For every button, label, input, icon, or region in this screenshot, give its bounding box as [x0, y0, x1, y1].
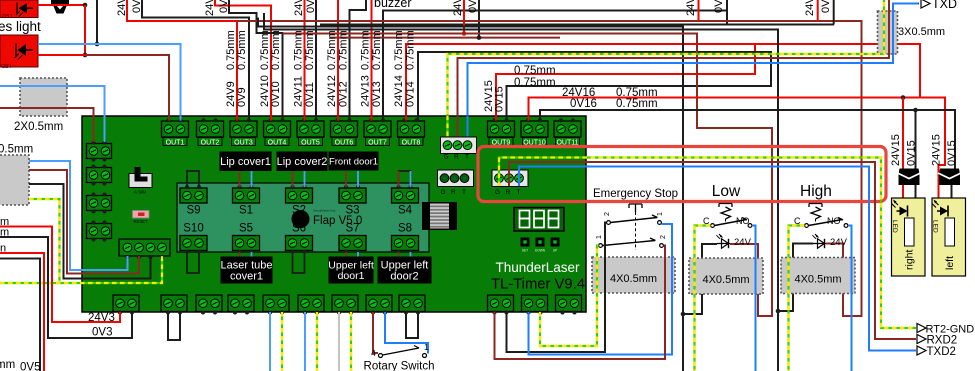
- logo dot: [292, 210, 310, 228]
- left header J3: [87, 196, 112, 211]
- wire blue ES right: [529, 224, 673, 355]
- svg-text:S5: S5: [239, 223, 253, 235]
- left header J1: [87, 144, 112, 159]
- wire dark-red through cable to J1: [0, 108, 94, 142]
- wire blue stub GRT1: [467, 116, 469, 140]
- switch Rotary: [379, 354, 383, 358]
- node junction: [83, 53, 88, 58]
- label box Laser tube cover1: [221, 257, 273, 284]
- wire yellow-green GRT3 to RT2-GND: [499, 158, 916, 329]
- svg-text:24V15: 24V15: [931, 134, 943, 166]
- wire B6 yellow-green down: [316, 312, 318, 371]
- wire 24V feed red with junction: [463, 0, 465, 34]
- wire yellow-green to J5: [0, 256, 162, 283]
- diode D-Low 24V: [717, 243, 730, 245]
- svg-text:0V5: 0V5: [20, 362, 40, 371]
- svg-text:OUT6: OUT6: [335, 139, 354, 146]
- wire 0V16 black to lamps: [540, 110, 955, 205]
- wire 0V14 black staircase to OUT9: [418, 52, 771, 121]
- wire B7 gray down: [338, 312, 340, 371]
- wire 0V9 black: [142, 0, 249, 121]
- wire dark-red GRT3 to RXD2: [509, 162, 916, 339]
- wire blue cable to J5: [29, 161, 128, 270]
- wire dark-red ES right: [495, 246, 666, 360]
- svg-text:OUT4: OUT4: [268, 139, 287, 146]
- wire 24V14 red staircase to OUT9: [406, 44, 755, 121]
- wire 0V3 black: [0, 237, 132, 338]
- svg-text:RESET: RESET: [134, 219, 148, 224]
- wire black ES left: [507, 223, 607, 353]
- svg-text:0V3: 0V3: [92, 327, 112, 339]
- LED indicator box1 (red, cut at top): [0, 0, 38, 18]
- wire S dark-red stub down: [239, 252, 241, 257]
- wire rotary dark-red: [373, 312, 378, 353]
- wire B6 blue down: [304, 312, 306, 371]
- switch SW2 Low: [719, 204, 732, 208]
- svg-text:0V: 0V: [713, 0, 725, 13]
- svg-text:T: T: [517, 189, 521, 196]
- svg-text:LED: LED: [891, 220, 898, 233]
- wire B5 blue down: [269, 312, 271, 371]
- wire blue GRT to TXD: [468, 4, 920, 139]
- svg-text:2: 2: [660, 235, 667, 239]
- svg-text:0V15: 0V15: [494, 86, 506, 112]
- wire dark-red bus to Low diode: [283, 34, 773, 317]
- cable 0.5mm: [0, 155, 29, 205]
- wire S8 top stubs: [398, 171, 400, 187]
- terminal S3: [339, 188, 366, 203]
- svg-text:4X0.5mm: 4X0.5mm: [702, 274, 749, 286]
- wire black bus to High column: [264, 13, 778, 371]
- svg-text:thenderlaser-ling: thenderlaser-ling: [313, 209, 336, 213]
- wire yellow-green GRT to top edge: [448, 0, 885, 138]
- svg-text:0.75mm: 0.75mm: [616, 98, 658, 110]
- svg-text:0.75mm: 0.75mm: [405, 30, 417, 70]
- svg-text:Rotary Switch: Rotary Switch: [364, 361, 435, 371]
- svg-text:High: High: [800, 183, 832, 200]
- terminal OUT1: [162, 121, 189, 137]
- svg-text:OUT5: OUT5: [301, 139, 320, 146]
- svg-text:T: T: [465, 154, 469, 161]
- wire black bracket High diode: [778, 244, 813, 312]
- label box Upper left door1: [329, 257, 374, 284]
- terminal OUT8: [398, 121, 425, 137]
- wire S4 loop: [399, 171, 411, 187]
- svg-text:0V16: 0V16: [570, 98, 597, 110]
- terminal bottom B4: [228, 295, 254, 312]
- svg-text:left: left: [944, 256, 956, 270]
- lamp left internals: [945, 218, 955, 246]
- buttons SET DOWN UP: [521, 238, 530, 247]
- svg-text:24V14: 24V14: [393, 75, 405, 107]
- svg-text:Emergency Stop: Emergency Stop: [593, 188, 678, 200]
- node junction: [901, 95, 906, 100]
- wire rotary blue: [385, 312, 428, 354]
- svg-text:SET: SET: [522, 249, 528, 253]
- svg-text:Front door1: Front door1: [329, 156, 378, 167]
- diode D-High 24V: [813, 243, 826, 245]
- wire dark-red bus to High lamp diode: [237, 21, 862, 316]
- connector J5 4-pin: [119, 239, 170, 256]
- LED indicator box2 (red): [0, 35, 38, 67]
- svg-text:0V10: 0V10: [270, 81, 282, 107]
- svg-text:Lip cover1: Lip cover1: [220, 156, 271, 168]
- terminal OUT5: [297, 121, 324, 137]
- terminal S6: [286, 236, 313, 251]
- left header J4: [87, 224, 112, 239]
- connector symbol left lamp: [939, 169, 960, 175]
- wire black branch lamp right: [915, 110, 917, 219]
- svg-text:24V: 24V: [734, 237, 752, 248]
- off-page arrow RXD2: [917, 335, 926, 344]
- svg-text:0V12: 0V12: [338, 81, 350, 107]
- wire black vertical from top: [96, 0, 98, 44]
- wire S9 loop: [187, 171, 199, 187]
- svg-text:LED: LED: [2, 12, 12, 18]
- svg-text:0V10: 0V10: [218, 0, 230, 13]
- switch SW3 High: [809, 204, 822, 208]
- wire 0V feed black with junction: [478, 0, 480, 38]
- svg-text:1: 1: [657, 212, 664, 216]
- svg-text:G: G: [444, 154, 449, 161]
- connector GRT3: [492, 170, 528, 187]
- svg-text:A SIM: A SIM: [134, 190, 146, 195]
- PCB board TL-Timer: [82, 116, 586, 312]
- wire yellow-green ES left: [540, 246, 599, 347]
- terminal bottom B1: [113, 295, 139, 312]
- node junction red: [462, 31, 467, 36]
- svg-text:0V15: 0V15: [906, 140, 918, 166]
- terminal bottom B5: [263, 295, 289, 312]
- wire B7 yellow-green down: [350, 312, 352, 371]
- svg-text:0V14: 0V14: [405, 81, 417, 107]
- wire red box2 to junction: [38, 54, 85, 56]
- terminal bottom B7: [332, 295, 358, 312]
- wire yellow-green cable elbow: [29, 199, 60, 283]
- terminal S10: [180, 236, 207, 251]
- terminal S2: [286, 188, 313, 203]
- svg-text:3X0.5mm: 3X0.5mm: [898, 26, 945, 38]
- node junction: [83, 3, 88, 8]
- terminal OUT4: [264, 121, 291, 137]
- label box Front door1: [329, 152, 379, 171]
- svg-text:G: G: [495, 189, 500, 196]
- svg-text:TXD2: TXD2: [927, 346, 956, 358]
- svg-text:S3: S3: [345, 205, 359, 217]
- svg-text:2X0.5mm: 2X0.5mm: [14, 121, 63, 133]
- connector ribbon: [422, 202, 457, 230]
- contact blade High: [809, 218, 844, 226]
- node junction: [776, 309, 781, 314]
- svg-text:es light: es light: [0, 19, 41, 34]
- node junction: [95, 42, 100, 47]
- terminal S5: [233, 236, 260, 251]
- wire black to bottom edge: [0, 259, 40, 371]
- svg-text:0V: 0V: [467, 0, 479, 13]
- terminal OUT11: [554, 121, 581, 137]
- svg-text:0.75mm: 0.75mm: [293, 30, 305, 70]
- svg-text:4X0.5mm: 4X0.5mm: [794, 274, 841, 286]
- svg-text:24V: 24V: [685, 0, 697, 16]
- terminal bottom R3: [556, 295, 582, 312]
- wire B2 loop: [168, 312, 180, 340]
- wire S dark-red stub: [345, 171, 347, 187]
- terminal OUT10: [521, 121, 548, 137]
- wire S blue stub: [357, 171, 359, 187]
- wire S dark-red stub: [239, 171, 241, 187]
- svg-text:R: R: [454, 154, 459, 161]
- off-page arrow TXD: [918, 3, 921, 5]
- lamp right internals: [905, 218, 915, 246]
- wire B9 loop: [406, 312, 418, 338]
- terminal S8: [392, 236, 419, 251]
- svg-text:0V13: 0V13: [371, 81, 383, 107]
- wire dark-red GRT to top edge: [458, 0, 890, 138]
- cable 2X0.5mm: [20, 78, 67, 116]
- svg-text:TXD: TXD: [932, 0, 957, 11]
- wire 0V10 black: [229, 0, 283, 121]
- svg-text:0.75mm: 0.75mm: [236, 30, 248, 70]
- wire 24V9 red: [127, 0, 237, 121]
- svg-text:1: 1: [596, 235, 603, 239]
- svg-text:OUT3: OUT3: [234, 139, 253, 146]
- terminal bottom B8: [366, 295, 392, 312]
- svg-text:cover1: cover1: [230, 271, 263, 283]
- wire S blue stub down: [357, 252, 359, 257]
- wire S6 loop: [293, 252, 305, 273]
- svg-text:0.75mm: 0.75mm: [393, 30, 405, 70]
- wire 24V3 red: [0, 227, 120, 323]
- svg-text:DOWN: DOWN: [535, 249, 546, 253]
- left header J2: [87, 168, 112, 183]
- wire black bracket Low diode: [683, 244, 717, 314]
- svg-text:m: m: [0, 227, 9, 239]
- terminal bottom B2: [161, 295, 187, 312]
- svg-text:24V15: 24V15: [890, 134, 902, 166]
- display 7-segment: [514, 208, 564, 232]
- wire S dark-red stub down: [398, 252, 400, 257]
- wire red feed top right: [698, 0, 700, 21]
- svg-text:24V11: 24V11: [293, 0, 305, 16]
- svg-text:24V10: 24V10: [204, 0, 216, 16]
- switch SW1 Emergency Stop: [629, 204, 642, 212]
- wire S blue stub: [304, 171, 306, 187]
- highlight rounded rect: [478, 147, 886, 202]
- svg-text:24V13: 24V13: [360, 75, 372, 107]
- svg-text:S1: S1: [239, 205, 253, 217]
- terminal bottom R1: [488, 295, 514, 312]
- cable 4X0.5mm Low: [689, 258, 763, 294]
- terminal OUT6: [331, 121, 358, 137]
- cable 4X0.5mm High: [781, 258, 855, 294]
- svg-text:T: T: [462, 189, 466, 196]
- svg-text:0V9: 0V9: [236, 87, 248, 107]
- connector symbol right lamp: [899, 169, 920, 175]
- svg-text:OUT8: OUT8: [402, 139, 421, 146]
- connector GRT2: [438, 170, 474, 187]
- svg-text:0V: 0V: [820, 0, 832, 13]
- terminal OUT7: [364, 121, 391, 137]
- button RESET: [133, 211, 150, 219]
- svg-text:0.75mm: 0.75mm: [371, 30, 383, 70]
- daughter board Flap V5.0: [177, 183, 429, 252]
- svg-text:0.5mm: 0.5mm: [0, 144, 33, 156]
- wire black feed top right: [726, 0, 728, 11]
- svg-text:S4: S4: [398, 205, 413, 217]
- svg-text:24V3: 24V3: [88, 312, 115, 324]
- wire 0V12 black to buzzer: [350, 0, 367, 121]
- svg-text:24V: 24V: [452, 0, 464, 16]
- connector GRT1: [441, 137, 477, 154]
- wire B5 yellow-green down: [281, 312, 283, 371]
- svg-text:RXD2: RXD2: [927, 335, 958, 347]
- svg-text:S9: S9: [186, 205, 200, 217]
- terminal OUT2: [197, 121, 224, 137]
- wire blue box2 to OUT1: [38, 44, 181, 121]
- svg-text:buzzer: buzzer: [374, 0, 412, 10]
- wire red branch lamp right: [902, 98, 904, 208]
- svg-text:LED: LED: [932, 220, 939, 233]
- svg-text:G: G: [441, 189, 446, 196]
- svg-text:ThunderLaser: ThunderLaser: [495, 260, 580, 275]
- svg-text:0V9: 0V9: [131, 0, 143, 13]
- terminal OUT3: [230, 121, 257, 137]
- wire S blue stub down: [410, 252, 412, 257]
- node junction: [913, 108, 918, 113]
- terminal S7: [339, 236, 366, 251]
- terminal S4: [392, 188, 419, 203]
- svg-text:0.75mm: 0.75mm: [514, 77, 556, 89]
- svg-text:0.75mm: 0.75mm: [326, 30, 338, 70]
- svg-text:LED: LED: [1, 62, 11, 68]
- svg-text:OUT1: OUT1: [166, 139, 185, 146]
- wire red box1 to junction: [38, 4, 85, 6]
- svg-text:UP: UP: [553, 249, 557, 253]
- svg-text:R: R: [451, 189, 456, 196]
- wire yellow-green stub GRT1: [446, 116, 448, 140]
- wire dark-red cable to J5: [29, 170, 139, 274]
- wire 0V13 black: [383, 11, 727, 122]
- svg-text:S2: S2: [292, 205, 306, 217]
- svg-text:24V12: 24V12: [326, 75, 338, 107]
- svg-text:0.75mm: 0.75mm: [304, 30, 316, 70]
- svg-text:24V: 24V: [804, 0, 816, 16]
- svg-text:S6: S6: [292, 223, 306, 235]
- svg-text:0V11: 0V11: [304, 82, 316, 107]
- wire S10 loop: [187, 252, 199, 273]
- svg-text:mm: mm: [0, 359, 15, 371]
- wire yellow-green Low left: [695, 226, 711, 371]
- off-page arrow RT2-GND: [917, 324, 926, 333]
- terminal bottom B3: [196, 295, 222, 312]
- wire 24V10 red: [215, 0, 271, 121]
- switch A-SIM: [129, 174, 152, 188]
- wire S dark-red stub: [292, 171, 294, 187]
- terminal OUT9: [488, 121, 515, 137]
- wire blue through cable to J1: [0, 86, 105, 142]
- wire blue High right: [848, 226, 852, 371]
- lamp left box: [932, 198, 966, 276]
- label box Lip cover2: [277, 152, 328, 172]
- wire stubs onto board: [168, 116, 170, 121]
- terminal S9: [180, 188, 207, 203]
- terminal bottom R2: [522, 295, 548, 312]
- svg-text:0V11: 0V11: [305, 0, 317, 13]
- wire 24V12 red: [337, 0, 339, 121]
- wire black bus upper: [320, 24, 834, 26]
- node junction: [681, 312, 686, 317]
- svg-text:0V15: 0V15: [946, 140, 958, 166]
- wire 24V13 red: [371, 0, 373, 121]
- wire red bus continuation to lamp area: [755, 44, 920, 98]
- svg-text:S10: S10: [183, 223, 203, 235]
- cable 4X0.5mm Emergency: [592, 257, 675, 293]
- svg-text:n: n: [0, 243, 6, 255]
- wire black feed top far right: [833, 0, 835, 25]
- connector symbol (cut at top edge): [51, 0, 69, 5]
- terminal bottom B9: [399, 295, 425, 312]
- svg-text:4X0.5mm: 4X0.5mm: [610, 273, 657, 285]
- svg-text:OUT7: OUT7: [368, 139, 387, 146]
- wire 24V16 red to lamps: [529, 98, 946, 206]
- label box Lip cover1: [220, 152, 272, 172]
- svg-text:24V: 24V: [830, 237, 848, 248]
- svg-text:R: R: [506, 189, 511, 196]
- wire dark-red stub GRT1: [457, 116, 459, 140]
- svg-text:0.75mm: 0.75mm: [270, 30, 282, 70]
- svg-text:2: 2: [604, 212, 611, 216]
- wire dark-red bus short: [330, 37, 560, 39]
- svg-text:0.75mm: 0.75mm: [360, 30, 372, 70]
- svg-text:Low: Low: [712, 183, 741, 200]
- wire red to bottom edge: [0, 253, 44, 371]
- wire black cable to J5: [29, 184, 151, 279]
- contact blade Low: [715, 218, 748, 226]
- wire 0V11 black: [315, 0, 317, 121]
- cable 3X0.5mm: [878, 11, 898, 54]
- svg-text:door2: door2: [390, 271, 418, 283]
- wire S dark-red stub down: [345, 252, 347, 257]
- svg-text:0.75mm: 0.75mm: [514, 65, 556, 77]
- wire blue Low right: [752, 226, 756, 371]
- wire dark-red to OUT1: [85, 55, 169, 121]
- svg-text:24V9: 24V9: [116, 0, 128, 16]
- label box Upper left door2: [378, 257, 432, 284]
- svg-text:TL-Timer V9.4: TL-Timer V9.4: [491, 277, 585, 293]
- wire blue GRT3 to TXD2: [519, 167, 916, 351]
- svg-text:4: 4: [371, 348, 376, 358]
- svg-text:OUT2: OUT2: [201, 139, 220, 146]
- wire red feed top far right: [817, 0, 819, 21]
- svg-text:right: right: [904, 249, 916, 270]
- svg-text:0.75mm: 0.75mm: [338, 30, 350, 70]
- lamp right box: [892, 198, 926, 276]
- wire red down: [84, 5, 86, 55]
- node junction: [477, 35, 482, 40]
- svg-text:24V11: 24V11: [293, 76, 305, 107]
- wire yellow-green High left: [789, 226, 805, 371]
- svg-text:Lip cover2: Lip cover2: [277, 156, 328, 168]
- svg-text:1: 1: [424, 342, 429, 352]
- wire S blue stub: [251, 171, 253, 187]
- svg-text:S7: S7: [345, 223, 359, 235]
- svg-text:door1: door1: [338, 270, 365, 282]
- terminal S1: [233, 188, 260, 203]
- wire black bus to Low column: [258, 18, 683, 371]
- off-page arrow TXD2: [917, 346, 926, 355]
- wire 24V11 red: [304, 0, 306, 121]
- wire S blue stub down: [251, 252, 253, 257]
